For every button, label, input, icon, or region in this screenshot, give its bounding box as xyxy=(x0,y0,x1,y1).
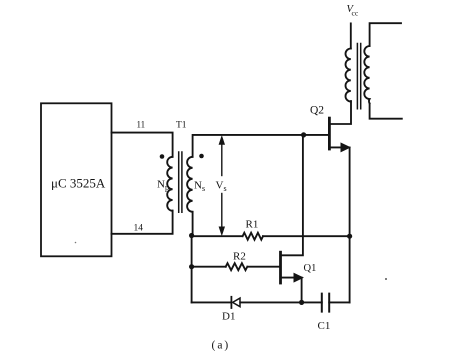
transistor Q1 base bar xyxy=(279,252,282,283)
node dot Q1 emitter bottom xyxy=(299,300,304,305)
svg-text:T1: T1 xyxy=(176,121,187,131)
svg-text:14: 14 xyxy=(134,224,144,234)
node dot T1 secondary bottom xyxy=(189,233,194,238)
transformer T1 core xyxy=(179,152,182,212)
svg-text:Q2: Q2 xyxy=(310,105,324,117)
transistor Q2 drain wire to T2 xyxy=(330,101,351,124)
wire T1 secondary top to Q2 gate xyxy=(193,135,330,157)
wire node to R1 line xyxy=(192,235,243,237)
svg-text:D1: D1 xyxy=(222,311,235,323)
transformer T1 primary winding Np xyxy=(167,157,172,211)
phase dot Ns xyxy=(199,154,204,159)
svg-text:C1: C1 xyxy=(318,320,331,332)
node dot R1 right xyxy=(347,234,352,239)
diode D1 cathode bar xyxy=(230,297,232,308)
transistor Q1 emitter arrow xyxy=(294,273,303,281)
transformer T2 secondary winding xyxy=(364,46,369,104)
transformer T2 primary winding xyxy=(345,49,350,102)
capacitor C1 plates xyxy=(322,294,329,312)
Vs arrowhead down xyxy=(219,227,225,236)
transformer T2 core xyxy=(357,44,360,109)
wire T2 secondary top stub xyxy=(370,23,401,46)
svg-text:μC 3525A: μC 3525A xyxy=(51,176,106,191)
wire T1 secondary bottom to node xyxy=(192,212,194,236)
diode D1 triangle xyxy=(233,298,240,307)
svg-text:Q1: Q1 xyxy=(304,263,317,274)
wire pin 11 to T1 primary top xyxy=(112,133,173,157)
resistor R2 xyxy=(226,263,248,270)
svg-text:(a): (a) xyxy=(212,340,231,352)
resistor R1 xyxy=(243,233,263,240)
svg-text:R1: R1 xyxy=(246,219,259,231)
wire D1 to C1 xyxy=(240,301,322,303)
wire T2 secondary bottom stub xyxy=(370,104,402,119)
node dot Q2 gate xyxy=(301,132,306,137)
Vs arrow line lower xyxy=(221,194,223,232)
Vs arrowhead up xyxy=(219,136,225,145)
transistor Q1 collector wire up to gate node xyxy=(281,136,303,256)
wire right rail Q2 source down to bottom xyxy=(349,147,351,302)
speck xyxy=(385,278,387,280)
wire pin 14 from T1 primary bottom xyxy=(112,211,173,234)
transformer T1 secondary winding Ns xyxy=(187,157,192,212)
wire Vcc to T2 primary top xyxy=(350,23,352,48)
svg-text:11: 11 xyxy=(137,120,146,130)
transistor Q2 gate bar xyxy=(328,118,331,149)
svg-text:R2: R2 xyxy=(233,251,246,263)
speck2 xyxy=(75,242,77,244)
transistor Q1 emitter wire xyxy=(281,278,302,303)
wire R2 right to Q1 base xyxy=(247,266,279,268)
wire node to R2 xyxy=(192,266,226,268)
IC U1 box μC 3525A xyxy=(41,103,112,256)
transistor Q2 source arrow xyxy=(341,143,350,151)
wire C1 right to right rail xyxy=(329,301,349,303)
svg-text:cc: cc xyxy=(352,9,359,18)
wire bottom rail left to D1 xyxy=(192,301,231,303)
node dot R2 tap xyxy=(189,264,194,269)
Vs arrow line upper xyxy=(221,140,223,176)
wire R1 right to source node xyxy=(263,235,350,237)
phase dot Np xyxy=(160,154,165,159)
transistor Q2 source wire xyxy=(330,146,344,148)
wire left rail down xyxy=(191,236,193,303)
